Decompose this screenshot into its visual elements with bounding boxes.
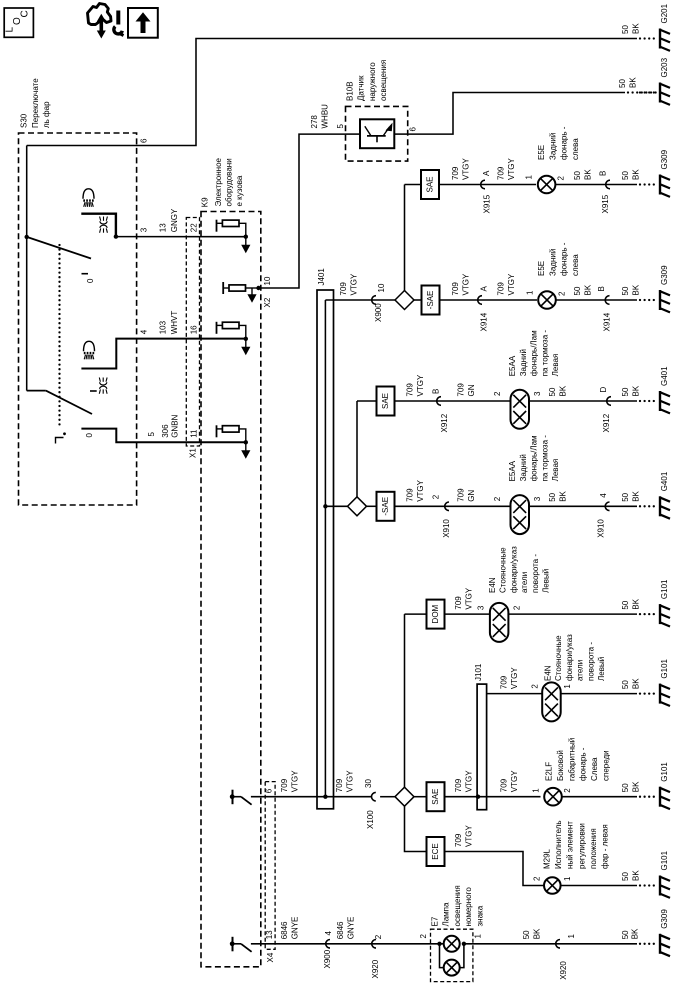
svg-text:Левая: Левая: [551, 459, 560, 482]
svg-text:VTGY: VTGY: [290, 770, 299, 792]
ground G401: [639, 400, 641, 402]
svg-text:GNYE: GNYE: [290, 917, 299, 940]
svg-text:709: 709: [457, 383, 466, 397]
ground G203: [639, 91, 641, 93]
icon: boxed up arrow: [128, 8, 158, 38]
svg-text:VTGY: VTGY: [510, 667, 519, 689]
wire 709 VTGY: [445, 613, 491, 615]
connector X900 pin4: [326, 940, 330, 949]
wire 6846 GNYE: [251, 943, 444, 945]
svg-text:VTGY: VTGY: [464, 770, 473, 792]
connector X900 pin10: [372, 296, 376, 305]
svg-text:BK: BK: [628, 77, 637, 88]
svg-text:регулировки: регулировки: [577, 823, 586, 869]
regulation box -SAE: [367, 505, 377, 507]
svg-text:G309: G309: [660, 265, 669, 285]
svg-text:6846: 6846: [280, 921, 289, 939]
svg-text:фонарь -: фонарь -: [560, 242, 569, 276]
svg-text:6: 6: [265, 788, 274, 793]
svg-text:поворота -: поворота -: [586, 642, 595, 681]
svg-text:X915: X915: [601, 194, 610, 213]
svg-text:слева: слева: [571, 138, 580, 160]
svg-text:709: 709: [335, 778, 344, 792]
svg-text:-SAE: -SAE: [381, 497, 390, 516]
ground G401: [639, 505, 641, 507]
wire S30 pin4: [81, 339, 245, 369]
connector X4 box: [265, 782, 275, 950]
svg-text:2: 2: [432, 494, 441, 499]
svg-text:B: B: [432, 389, 441, 394]
headlamp icon 1: [83, 189, 94, 199]
svg-text:50: 50: [621, 930, 630, 939]
svg-text:1: 1: [526, 290, 535, 295]
svg-text:BK: BK: [631, 23, 640, 34]
connector X1 box: [186, 218, 199, 447]
svg-text:M29L: M29L: [543, 848, 552, 869]
svg-text:поворота -: поворота -: [531, 554, 540, 593]
wire 50 BK: [555, 184, 637, 186]
svg-text:X1: X1: [189, 448, 198, 458]
svg-text:номерного: номерного: [464, 887, 473, 927]
LOC view-reference box: [4, 8, 33, 37]
svg-text:SAE: SAE: [381, 393, 390, 409]
headlamp icon 2: [84, 341, 95, 351]
svg-text:ный элемент: ный элемент: [566, 821, 575, 869]
svg-text:709: 709: [500, 675, 509, 689]
svg-text:709: 709: [406, 488, 415, 502]
svg-text:709: 709: [454, 596, 463, 610]
wire 50 BK: [529, 400, 637, 402]
svg-text:Слева: Слева: [590, 757, 599, 781]
svg-text:709: 709: [454, 778, 463, 792]
svg-text:Левый: Левый: [542, 569, 551, 593]
node J101 junction: [476, 795, 480, 799]
switch1 contact bracket: [81, 214, 116, 237]
svg-text:1: 1: [532, 788, 541, 793]
svg-text:BK: BK: [558, 490, 567, 501]
ground G101: [639, 692, 641, 694]
svg-text:1: 1: [474, 934, 483, 939]
switch2 blade: [46, 391, 92, 414]
svg-text:VTGY: VTGY: [510, 770, 519, 792]
svg-text:A: A: [482, 170, 491, 176]
node J401 junction: [323, 795, 327, 799]
svg-text:1: 1: [525, 175, 534, 180]
svg-text:709: 709: [451, 282, 460, 296]
regulation box -SAE: [414, 299, 422, 301]
svg-text:е кузова: е кузова: [235, 175, 244, 206]
svg-text:6: 6: [140, 138, 149, 143]
switch2 contact tick: [90, 390, 97, 392]
ground G309: [639, 943, 641, 945]
svg-text:VTGY: VTGY: [416, 479, 425, 501]
svg-text:BK: BK: [631, 284, 640, 295]
svg-text:0: 0: [85, 433, 94, 438]
svg-text:оборудовани: оборудовани: [225, 158, 234, 206]
svg-text:BK: BK: [583, 169, 592, 180]
svg-text:X4: X4: [266, 952, 275, 962]
svg-text:WHVT: WHVT: [170, 311, 179, 335]
svg-text:16: 16: [190, 325, 199, 334]
junction diamond 2: [348, 497, 367, 516]
svg-text:Левый: Левый: [597, 657, 606, 681]
svg-text:3: 3: [140, 227, 149, 232]
wire 709 VTGY: [395, 400, 511, 402]
wire S30 pin5: [81, 429, 245, 443]
svg-text:2: 2: [493, 496, 502, 501]
wire S30 pin3: [116, 236, 246, 238]
svg-text:спереди: спереди: [602, 750, 611, 781]
svg-text:709: 709: [497, 282, 506, 296]
svg-text:габаритный: габаритный: [567, 738, 576, 781]
svg-text:VTGY: VTGY: [349, 273, 358, 295]
svg-text:4: 4: [140, 329, 149, 334]
svg-text:X910: X910: [442, 519, 451, 538]
svg-text:BK: BK: [583, 284, 592, 295]
K9 input network pin11: [216, 425, 218, 437]
wire 709 VTGY: [395, 505, 511, 507]
svg-text:50: 50: [621, 387, 630, 396]
svg-text:Стояночные: Стояночные: [499, 547, 508, 593]
svg-text:X915: X915: [483, 194, 492, 213]
svg-text:306: 306: [161, 424, 170, 438]
svg-text:4: 4: [599, 493, 608, 498]
svg-text:A: A: [480, 286, 489, 292]
svg-text:X100: X100: [366, 810, 375, 829]
switch1 off contact: [82, 273, 89, 275]
wire 50 BK: [561, 693, 637, 695]
svg-text:2: 2: [493, 391, 502, 396]
svg-text:2: 2: [563, 788, 572, 793]
svg-text:6846: 6846: [336, 921, 345, 939]
svg-text:B10B: B10B: [346, 81, 355, 101]
svg-text:Лампа: Лампа: [442, 902, 451, 927]
svg-text:278: 278: [310, 115, 319, 129]
wire 50 BK: [562, 796, 637, 798]
svg-text:освещения: освещения: [379, 60, 388, 101]
svg-text:22: 22: [190, 223, 199, 232]
ground G101: [639, 884, 641, 886]
regulation box SAE: [421, 170, 439, 199]
svg-text:знака: знака: [475, 905, 484, 926]
svg-text:K9: K9: [201, 197, 210, 207]
lamp E5AA tail/stop left #2: [511, 495, 530, 534]
connector X912 B: [437, 397, 441, 406]
svg-text:X914: X914: [480, 312, 489, 331]
wire from J101: [487, 693, 543, 695]
svg-text:слева: слева: [571, 254, 580, 276]
svg-text:фонари/указ: фонари/указ: [509, 546, 518, 593]
branch vertical to X912 row: [356, 401, 358, 497]
svg-text:SAE: SAE: [426, 176, 435, 192]
B10B inner box: [360, 119, 394, 148]
svg-text:Боковой: Боковой: [556, 750, 565, 781]
svg-text:фонарь/Лам: фонарь/Лам: [530, 330, 539, 376]
svg-text:фонари/указ: фонари/указ: [565, 634, 574, 681]
connector X100 pin30: [371, 792, 375, 801]
svg-text:E2LF: E2LF: [545, 762, 554, 781]
svg-text:VTGY: VTGY: [416, 374, 425, 396]
svg-text:Задний: Задний: [519, 454, 528, 481]
lamp E7 a: [444, 936, 460, 952]
svg-text:X2: X2: [263, 297, 272, 307]
wire 709 VTGY: [445, 796, 541, 798]
switch1 blade: [27, 237, 91, 259]
svg-text:50: 50: [522, 930, 531, 939]
svg-text:BK: BK: [631, 781, 640, 792]
svg-text:1: 1: [567, 934, 576, 939]
svg-text:VTGY: VTGY: [464, 587, 473, 609]
K9 input network pin22: [216, 220, 218, 232]
wire 709 VTGY row1: [439, 184, 536, 186]
svg-text:G101: G101: [660, 579, 669, 599]
connector X910 pin2: [445, 502, 449, 511]
svg-text:709: 709: [406, 383, 415, 397]
svg-text:SAE: SAE: [431, 789, 440, 805]
svg-text:3: 3: [533, 496, 542, 501]
lamp assembly E7 box: [431, 929, 473, 981]
svg-text:G309: G309: [660, 149, 669, 169]
wire B10B pin6 to G203: [408, 93, 625, 135]
svg-text:B: B: [597, 286, 606, 291]
svg-text:X920: X920: [559, 961, 568, 980]
svg-text:C: C: [20, 10, 31, 17]
svg-text:фонарь/Лам: фонарь/Лам: [530, 435, 539, 481]
svg-text:атели: атели: [520, 572, 529, 593]
svg-text:Исполнитель: Исполнитель: [554, 820, 563, 869]
body control module K9 box: [201, 212, 261, 967]
svg-text:GN: GN: [467, 384, 476, 396]
svg-text:E5AA: E5AA: [508, 460, 517, 481]
svg-text:709: 709: [280, 778, 289, 792]
svg-text:2: 2: [531, 684, 540, 689]
connector X920 pin1: [556, 940, 560, 949]
svg-text:X910: X910: [597, 519, 606, 538]
splice pack J101: [477, 684, 487, 810]
svg-text:BK: BK: [631, 598, 640, 609]
svg-text:Задний: Задний: [548, 133, 557, 160]
svg-text:BK: BK: [558, 385, 567, 396]
svg-text:BK: BK: [631, 490, 640, 501]
svg-text:5: 5: [147, 432, 156, 437]
S30 common rail: [26, 146, 28, 391]
svg-text:709: 709: [500, 778, 509, 792]
K9 input network pin10 (X2): [222, 282, 224, 294]
svg-text:3: 3: [533, 391, 542, 396]
svg-text:X920: X920: [371, 959, 380, 978]
splice pack J401: [317, 290, 334, 809]
svg-text:наружного: наружного: [368, 62, 377, 101]
svg-text:2: 2: [513, 605, 522, 610]
svg-text:11: 11: [190, 429, 199, 438]
svg-text:4: 4: [324, 931, 333, 936]
lamp E5AA tail/stop left: [511, 390, 530, 429]
svg-text:G309: G309: [660, 909, 669, 929]
svg-text:50: 50: [621, 680, 630, 689]
svg-text:709: 709: [497, 166, 506, 180]
svg-text:G101: G101: [660, 762, 669, 782]
svg-text:50: 50: [621, 600, 630, 609]
svg-text:E5E: E5E: [537, 145, 546, 160]
phototransistor symbol: [367, 135, 386, 137]
lamp E2LF side marker: [544, 788, 562, 806]
ground G201: [639, 37, 641, 39]
svg-text:VTGY: VTGY: [464, 825, 473, 847]
svg-text:GNBN: GNBN: [171, 414, 180, 437]
svg-text:709: 709: [454, 833, 463, 847]
svg-text:-SAE: -SAE: [426, 291, 435, 310]
svg-text:2: 2: [558, 291, 567, 296]
wire from J401 to diamond: [325, 299, 395, 301]
svg-text:WHBU: WHBU: [320, 104, 329, 129]
headlamp switch S30 box: [19, 133, 137, 505]
wire 709 VTGY from K9: [251, 796, 372, 798]
svg-text:E4N: E4N: [488, 577, 497, 593]
svg-text:103: 103: [159, 320, 168, 334]
K9 output switch pin13: [232, 937, 234, 952]
svg-text:2: 2: [374, 934, 383, 939]
svg-text:G203: G203: [660, 57, 669, 77]
wire 50 BK: [509, 613, 638, 615]
svg-text:GNGY: GNGY: [170, 208, 179, 232]
svg-text:фонарь -: фонарь -: [579, 747, 588, 781]
svg-text:2: 2: [557, 176, 566, 181]
svg-text:50: 50: [548, 492, 557, 501]
svg-text:Электронное: Электронное: [214, 157, 223, 206]
svg-text:ECE: ECE: [431, 843, 440, 859]
svg-text:S30: S30: [20, 113, 29, 128]
svg-text:6: 6: [409, 127, 418, 132]
svg-text:B: B: [599, 171, 608, 176]
ground G309: [639, 183, 641, 185]
svg-text:50: 50: [621, 783, 630, 792]
svg-text:1: 1: [563, 684, 572, 689]
regulation box ECE: [427, 837, 445, 866]
connector X915 A: [481, 180, 485, 189]
lamp E4N park/turn left: [490, 603, 509, 642]
ambient light sensor B10B box: [346, 106, 408, 161]
K9 input network pin16: [216, 322, 218, 334]
svg-text:ль фар: ль фар: [42, 101, 51, 128]
wire 709 VTGY: [440, 299, 538, 301]
svg-text:E4N: E4N: [544, 665, 553, 681]
svg-text:709: 709: [339, 282, 348, 296]
svg-text:BK: BK: [631, 928, 640, 939]
junction diamond: [395, 291, 414, 310]
svg-text:VTGY: VTGY: [507, 158, 516, 180]
detent dotted line: [58, 244, 60, 246]
svg-text:X914: X914: [603, 312, 612, 331]
svg-text:па тормоза -: па тормоза -: [540, 435, 549, 482]
svg-text:2: 2: [533, 876, 542, 881]
lamp M29L actuator: [544, 877, 561, 894]
lamp E7 b parallel loop: [440, 944, 444, 968]
svg-text:фар - левая: фар - левая: [601, 824, 610, 869]
svg-text:G401: G401: [660, 471, 669, 491]
svg-text:709: 709: [457, 488, 466, 502]
svg-text:BK: BK: [532, 928, 541, 939]
parking lamp icon 1: [100, 217, 101, 221]
svg-text:VTGY: VTGY: [461, 273, 470, 295]
wire 50 BK: [556, 299, 637, 301]
svg-text:BK: BK: [631, 678, 640, 689]
svg-text:1: 1: [563, 876, 572, 881]
regulation box SAE: [377, 387, 395, 416]
svg-text:13: 13: [159, 223, 168, 232]
svg-text:Стояночные: Стояночные: [554, 635, 563, 681]
wire 50 BK: [561, 885, 637, 887]
svg-text:D: D: [599, 387, 608, 393]
K9 output switch pin6: [232, 790, 234, 805]
svg-text:E7: E7: [431, 916, 440, 926]
svg-text:G101: G101: [660, 658, 669, 678]
svg-text:Задний: Задний: [519, 349, 528, 376]
svg-text:DOM: DOM: [431, 604, 440, 623]
svg-text:освещения: освещения: [453, 885, 462, 926]
svg-text:BK: BK: [631, 385, 640, 396]
node: switch1 pivot: [25, 235, 29, 239]
svg-text:30: 30: [364, 779, 373, 788]
icon: component view with arrows and wrench: [88, 4, 112, 25]
svg-text:VTGY: VTGY: [345, 770, 354, 792]
svg-text:50: 50: [621, 872, 630, 881]
detent end mark: [56, 438, 64, 444]
svg-text:13: 13: [265, 930, 274, 939]
svg-text:VTGY: VTGY: [507, 273, 516, 295]
svg-text:50: 50: [621, 25, 630, 34]
svg-text:X900: X900: [374, 303, 383, 322]
parking lamp icon 2: [99, 378, 100, 382]
svg-text:50: 50: [573, 171, 582, 180]
regulation box DOM: [427, 600, 445, 629]
branch vertical to ECE: [405, 806, 427, 851]
svg-text:положения: положения: [589, 828, 598, 869]
svg-text:J401: J401: [317, 268, 326, 286]
svg-text:L: L: [5, 27, 16, 33]
svg-text:па тормоза -: па тормоза -: [540, 330, 549, 377]
svg-text:X900: X900: [323, 949, 332, 968]
svg-text:E5E: E5E: [537, 261, 546, 276]
svg-text:Задний: Задний: [548, 249, 557, 276]
svg-text:709: 709: [451, 166, 460, 180]
wire 50 BK: [464, 943, 637, 945]
connector X920 pin2: [372, 940, 376, 949]
svg-text:50: 50: [621, 171, 630, 180]
wire 50 BK: [529, 505, 637, 507]
svg-text:10: 10: [377, 283, 386, 292]
svg-text:J101: J101: [474, 663, 483, 681]
svg-text:VTGY: VTGY: [461, 158, 470, 180]
svg-text:GN: GN: [467, 490, 476, 502]
svg-text:X912: X912: [440, 413, 449, 432]
svg-text:G201: G201: [660, 3, 669, 23]
svg-text:GNYE: GNYE: [346, 917, 355, 940]
svg-text:атели: атели: [576, 660, 585, 681]
ground G101: [639, 613, 641, 615]
svg-text:Левая: Левая: [551, 354, 560, 377]
wire from J401 to diamond2: [325, 505, 347, 507]
svg-text:50: 50: [618, 79, 627, 88]
svg-text:BK: BK: [631, 870, 640, 881]
lamp E5E left tail: [538, 176, 556, 194]
svg-text:50: 50: [548, 387, 557, 396]
connector X914 A: [478, 296, 482, 305]
wire through sensor: [346, 133, 361, 135]
lamp E4N park/turn left #2: [542, 682, 561, 721]
branch vertical DOM row: [404, 614, 406, 787]
switch2 pivot: [27, 390, 46, 392]
wire 709 VTGY to actuator: [445, 852, 544, 886]
